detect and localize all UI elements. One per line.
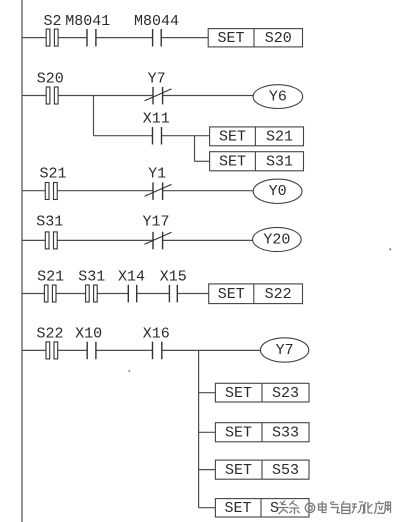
wire branch to X11 <box>94 135 153 137</box>
svg-text:S22: S22 <box>265 286 292 303</box>
wire stub to SET S33 <box>199 431 216 433</box>
wire tee to SET S31 box <box>195 160 210 162</box>
wire rung6 X10 to X16 <box>96 349 153 351</box>
SET S31 box <box>210 152 304 171</box>
contact Y1 (NC) <box>145 182 172 200</box>
svg-text:S21: S21 <box>37 269 64 286</box>
wire branch vertical after S20 <box>93 96 95 136</box>
left power rail <box>21 0 23 522</box>
svg-text:M8044: M8044 <box>134 13 179 30</box>
svg-text:Y20: Y20 <box>263 231 290 248</box>
wire rung6 X16 to coil Y7 <box>162 349 261 351</box>
wire rung2 rail to S20 <box>22 95 46 97</box>
wire X11 to SET S21 box <box>162 135 210 137</box>
svg-text:S33: S33 <box>272 425 299 442</box>
contact Y17 (NC) <box>145 232 172 250</box>
svg-text:S20: S20 <box>37 71 64 88</box>
watermark char @ <box>305 503 314 512</box>
contact S2 (STL) <box>46 29 58 46</box>
contact X14 <box>128 285 136 303</box>
wire rung3 rail to S21 <box>22 190 45 192</box>
wire branch vertical rung6 <box>198 350 200 507</box>
wire rung5 S21 to S31 <box>56 293 86 295</box>
wire rung1 S2 to M8041 <box>58 37 87 39</box>
wire rung5 rail to S21 <box>22 293 44 295</box>
wire rung1 M8041 to M8044 <box>96 37 153 39</box>
contact X11 <box>153 127 162 145</box>
svg-text:SET: SET <box>218 286 245 303</box>
svg-text:SET: SET <box>217 30 244 47</box>
SET S33 box <box>215 423 309 442</box>
wire rung5 S31 to X14 <box>97 293 128 295</box>
svg-text:Y17: Y17 <box>142 214 169 231</box>
svg-text:X15: X15 <box>160 269 187 286</box>
artifact dot left <box>128 370 130 372</box>
contact S21 (STL) rung5 <box>44 285 56 302</box>
wire rung3 Y1 to coil Y0 <box>163 190 254 192</box>
wire rung4 S31 to Y17 contact <box>57 239 153 241</box>
watermark char 气 <box>330 502 340 513</box>
svg-text:X11: X11 <box>143 110 170 127</box>
svg-text:Y7: Y7 <box>276 342 294 359</box>
SET S21 box <box>210 127 304 146</box>
svg-text:S31: S31 <box>36 214 63 231</box>
wire stub to SET S53 <box>199 469 216 471</box>
SET S22 box <box>209 284 303 304</box>
contact S31 (STL) rung5 <box>86 285 98 302</box>
coil Y7 <box>260 338 308 362</box>
svg-text:SET: SET <box>225 385 252 402</box>
wire rung4 rail to S31 <box>22 239 45 241</box>
watermark 头条 @电气自动化应用 <box>278 501 391 515</box>
svg-text:Y0: Y0 <box>269 183 287 200</box>
contact S31 (STL) rung4 <box>45 232 57 249</box>
contact X16 <box>153 342 162 360</box>
contact S22 (STL) rung6 <box>46 342 58 359</box>
wire rung2 Y7 contact to coil Y6 <box>163 95 254 97</box>
wire rung6 S22 to X10 <box>58 349 87 351</box>
contact M8044 <box>153 29 162 47</box>
svg-text:S53: S53 <box>272 462 299 479</box>
watermark char 自 <box>342 501 350 514</box>
wire stub to SET S63 <box>199 507 216 509</box>
svg-text:S2: S2 <box>43 13 61 30</box>
svg-text:SET: SET <box>219 129 246 146</box>
watermark char 化 <box>364 502 373 514</box>
coil Y6 <box>253 85 303 109</box>
watermark char 应 <box>374 501 384 514</box>
contact M8041 <box>87 29 96 47</box>
svg-text:S23: S23 <box>272 385 299 402</box>
svg-text:S31: S31 <box>266 154 293 171</box>
wire rung1 M8044 to SET box <box>161 37 208 39</box>
watermark char 用 <box>384 502 390 513</box>
artifact dot right <box>389 248 391 250</box>
wire rung2 S20 to Y7 contact <box>58 95 153 97</box>
svg-text:Y7: Y7 <box>148 71 166 88</box>
contact S21 (STL) rung3 <box>45 183 57 200</box>
SET S63 box (value obscured by watermark) <box>215 499 309 517</box>
wire tee vertical to S31 row <box>194 136 196 162</box>
coil Y0 <box>253 179 302 203</box>
watermark char 电 <box>319 501 327 512</box>
svg-text:S31: S31 <box>78 269 105 286</box>
SET S23 box <box>215 383 309 402</box>
svg-text:S22: S22 <box>36 325 63 342</box>
coil Y20 <box>253 227 302 251</box>
wire rung4 Y17 to coil Y20 <box>163 239 253 241</box>
svg-text:Y1: Y1 <box>148 166 166 183</box>
contact Y7 (NC) <box>145 87 172 105</box>
wire stub to SET S23 <box>199 392 216 394</box>
contact X10 <box>87 342 96 360</box>
SET S20 box <box>208 29 302 47</box>
svg-text:S21: S21 <box>266 129 293 146</box>
watermark char 动 <box>352 502 364 513</box>
wire rung5 X14 to X15 <box>137 293 170 295</box>
wire rung5 X15 to SET box <box>177 293 208 295</box>
svg-text:X10: X10 <box>75 325 102 342</box>
svg-text:M8041: M8041 <box>65 13 110 30</box>
svg-text:SET: SET <box>225 425 252 442</box>
svg-text:SET: SET <box>225 462 252 479</box>
watermark char 条 <box>290 501 300 515</box>
wire rung3 S21 to Y1 contact <box>57 190 153 192</box>
svg-text:SET: SET <box>219 154 246 171</box>
svg-text:S20: S20 <box>265 30 292 47</box>
svg-text:SET: SET <box>224 500 251 517</box>
watermark char 头 <box>278 501 289 515</box>
contact S20 (STL) <box>46 87 58 104</box>
contact X15 <box>169 285 177 303</box>
svg-text:X14: X14 <box>118 269 145 286</box>
wire rung1 rail to S2 <box>22 37 46 39</box>
SET S53 box <box>215 460 309 479</box>
svg-text:S: S <box>270 500 279 517</box>
svg-text:X16: X16 <box>143 325 170 342</box>
svg-text:S21: S21 <box>39 166 66 183</box>
svg-text:Y6: Y6 <box>269 89 287 106</box>
wire rung6 rail to S22 <box>22 349 46 351</box>
